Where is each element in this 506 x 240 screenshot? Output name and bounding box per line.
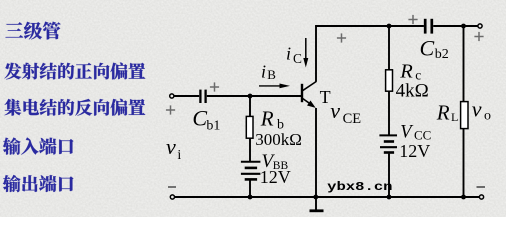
wire: R_b top lead xyxy=(249,96,251,117)
battery V_CC (two cells) xyxy=(379,134,397,136)
svg-text:C: C xyxy=(192,106,207,131)
svg-text:12V: 12V xyxy=(260,167,291,187)
svg-text:v: v xyxy=(330,98,340,123)
svg-text:i: i xyxy=(261,62,266,82)
node: base wire / R_b junction xyxy=(248,94,253,99)
text label: title line 4: shu ru duan kou xyxy=(3,138,74,155)
text label: title line 2: fa she jie de zheng xiang pian zhi xyxy=(4,63,145,80)
output terminal top (open circle) xyxy=(478,24,482,28)
svg-text:L: L xyxy=(451,110,458,124)
svg-text:R: R xyxy=(399,60,413,82)
node: top rail / R_L junction xyxy=(461,24,466,29)
polarity + of input v_i (gray) xyxy=(166,109,175,111)
ground symbol xyxy=(315,197,317,211)
polarity + of output v_o (gray) xyxy=(474,36,483,38)
svg-text:v: v xyxy=(472,96,482,121)
transistor T: base bar xyxy=(301,84,303,102)
svg-text:ybx8.cn: ybx8.cn xyxy=(327,181,392,195)
wire: R_L top lead xyxy=(463,26,465,102)
svg-text:CE: CE xyxy=(343,111,362,127)
wire: input terminal to C_b1 xyxy=(174,95,199,97)
node: V_BB / bottom rail junction xyxy=(248,195,253,200)
svg-text:b2: b2 xyxy=(435,47,449,62)
text label: title line 1: san ji guan xyxy=(5,22,60,40)
wire: top rail from collector to C_b2 xyxy=(315,25,424,27)
wire: R_c to battery V_CC xyxy=(388,91,390,135)
input terminal top (open circle) xyxy=(170,94,174,98)
polarity - of output v_o (gray) xyxy=(477,186,486,188)
svg-text:C: C xyxy=(420,35,435,60)
resistor R_b xyxy=(246,116,253,138)
text label: title line 3: ji dian jie de fan xiang pian zhi xyxy=(5,99,146,116)
capacitor C_b1 plates xyxy=(199,90,201,103)
svg-text:T: T xyxy=(320,87,331,107)
svg-text:4kΩ: 4kΩ xyxy=(396,81,429,102)
wire: R_L to bottom rail xyxy=(463,129,465,197)
svg-text:v: v xyxy=(166,134,176,159)
polarity + on top rail (gray) xyxy=(337,37,346,39)
node: top rail / R_c junction xyxy=(387,24,392,29)
node: emitter / bottom rail / ground junction xyxy=(313,195,318,200)
transistor T: collector diagonal xyxy=(303,82,317,91)
resistor R_L xyxy=(461,102,468,129)
wire: R_c top lead xyxy=(388,26,390,70)
wire: collector riser xyxy=(315,25,317,82)
wire: emitter down to bottom rail xyxy=(315,108,317,197)
polarity + of C_b1 (gray) xyxy=(210,86,219,88)
resistor R_c xyxy=(386,70,393,91)
svg-text:o: o xyxy=(484,109,491,124)
svg-text:300kΩ: 300kΩ xyxy=(255,130,302,149)
watermark ybx8.cn xyxy=(327,181,392,195)
wire: bottom rail xyxy=(175,196,480,198)
wire: R_b to battery V_BB xyxy=(249,138,251,161)
svg-text:12V: 12V xyxy=(399,141,430,161)
wire: C_b2 to output terminal xyxy=(433,25,478,27)
polarity + of C_b2 (gray) xyxy=(408,19,417,21)
polarity - of input v_i (gray) xyxy=(168,186,176,188)
wire: C_b1 to transistor base xyxy=(207,95,301,97)
svg-text:R: R xyxy=(260,106,274,130)
capacitor C_b2 plates xyxy=(424,19,427,34)
svg-text:R: R xyxy=(436,100,450,124)
svg-text:C: C xyxy=(293,51,302,66)
node: V_CC / bottom rail junction xyxy=(387,195,392,200)
svg-text:i: i xyxy=(177,148,181,163)
svg-text:i: i xyxy=(286,43,291,63)
wire: V_BB to ground rail xyxy=(249,181,251,198)
input terminal bottom (open circle) xyxy=(170,195,174,199)
transistor T: emitter diagonal with arrow xyxy=(303,98,314,105)
svg-text:b1: b1 xyxy=(206,118,220,133)
text label: title line 5: shu chu duan kou xyxy=(3,175,74,192)
battery V_BB (two cells) xyxy=(241,161,261,163)
node: R_L / bottom rail junction xyxy=(461,195,466,200)
wire: V_CC to bottom rail xyxy=(388,154,390,197)
output terminal bottom (open circle) xyxy=(479,195,483,199)
svg-text:B: B xyxy=(267,67,276,82)
